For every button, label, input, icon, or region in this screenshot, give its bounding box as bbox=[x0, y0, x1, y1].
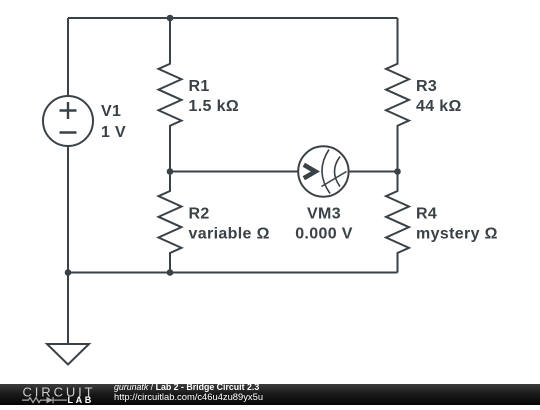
svg-text:LAB: LAB bbox=[68, 395, 94, 405]
svg-text:variable Ω: variable Ω bbox=[189, 226, 270, 243]
svg-text:1 V: 1 V bbox=[101, 124, 126, 141]
resistor R3 bbox=[386, 18, 409, 172]
svg-text:R4: R4 bbox=[416, 206, 437, 223]
svg-text:R2: R2 bbox=[189, 206, 210, 223]
wire right column top stub bbox=[397, 18, 399, 64]
svg-text:44 kΩ: 44 kΩ bbox=[416, 98, 462, 115]
wire ground lead bbox=[67, 273, 69, 345]
wire top horizontal bbox=[68, 17, 398, 19]
wire bottom horizontal bbox=[68, 272, 398, 274]
ground bbox=[47, 344, 89, 365]
wire left column top (top rail to V1) bbox=[67, 18, 69, 96]
footer text bbox=[114, 383, 263, 401]
footer bar bbox=[0, 384, 540, 406]
node bottom left junction bbox=[65, 269, 72, 276]
svg-text:R3: R3 bbox=[416, 78, 437, 95]
svg-text:VM3: VM3 bbox=[307, 206, 341, 223]
node middle right junction bbox=[394, 168, 401, 175]
voltmeter VM3 bbox=[298, 146, 348, 196]
resistor R2 bbox=[159, 172, 182, 273]
wire left column bottom (V1 to bottom rail) bbox=[67, 146, 69, 273]
node top middle junction bbox=[167, 15, 174, 22]
resistor R4 bbox=[386, 172, 409, 273]
logo resistor squiggle and diode bbox=[22, 396, 67, 402]
resistor R1 bbox=[159, 18, 182, 172]
svg-text:mystery Ω: mystery Ω bbox=[416, 226, 498, 243]
svg-text:V1: V1 bbox=[101, 103, 121, 120]
wire middle horizontal bbox=[170, 171, 398, 173]
svg-text:1.5 kΩ: 1.5 kΩ bbox=[189, 98, 240, 115]
node bottom middle junction bbox=[167, 269, 174, 276]
node middle left junction bbox=[167, 168, 174, 175]
svg-text:0.000 V: 0.000 V bbox=[295, 226, 353, 243]
svg-text:R1: R1 bbox=[189, 78, 210, 95]
CircuitLab logo bbox=[22, 385, 117, 406]
voltage source V1 bbox=[43, 96, 93, 146]
